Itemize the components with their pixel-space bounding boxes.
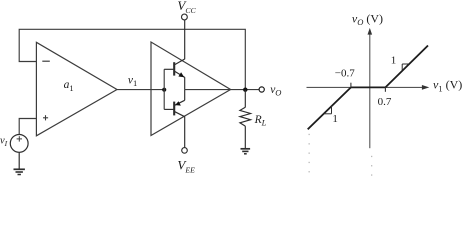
op-amp plus sign	[43, 115, 48, 120]
graph x-axis v1	[307, 86, 424, 88]
faint dotted projection line (below left diagonal)	[309, 134, 310, 173]
QN emitter arrowhead	[178, 72, 184, 77]
graph y-axis vO	[369, 34, 371, 149]
VCC terminal	[182, 14, 188, 20]
source vI	[10, 135, 28, 153]
svg-text:v1 (V): v1 (V)	[433, 78, 462, 94]
QP emitter arrowhead	[175, 101, 181, 105]
slope indicator (right), slope = 1	[402, 64, 409, 70]
transistor QN (NPN, top)	[164, 20, 185, 90]
svg-text:vO (V): vO (V)	[352, 12, 383, 28]
left diagonal segment	[308, 87, 351, 129]
faint dotted projection line (below y-axis)	[371, 156, 372, 176]
ground (under RL)	[241, 149, 251, 154]
svg-text:1: 1	[332, 113, 338, 125]
VEE terminal	[182, 148, 188, 154]
svg-text:−0.7: −0.7	[335, 68, 355, 80]
transfer curve	[308, 46, 428, 130]
output wire to vO	[185, 89, 259, 91]
buffer triangle (output stage)	[151, 42, 231, 136]
op-amp U1 (a1)	[36, 42, 117, 136]
wire v1: op-amp output to bases	[117, 89, 164, 91]
node vO (junction dot)	[243, 88, 247, 92]
non-inverting input wire	[19, 119, 36, 135]
feedback wire (output to inverting input)	[19, 29, 245, 89]
node v1 (junction dot)	[162, 88, 166, 92]
slope indicator (left), slope = 1	[323, 106, 331, 114]
tick 0.7	[384, 87, 386, 91]
base bus wire	[163, 69, 165, 109]
resistor RL	[240, 90, 251, 149]
transistor QP (PNP, bottom)	[164, 90, 185, 148]
op-amp minus sign	[42, 60, 50, 62]
svg-text:0.7: 0.7	[378, 96, 392, 108]
tick -0.7	[350, 83, 352, 88]
right diagonal segment	[385, 46, 428, 88]
dead-band flat segment	[351, 86, 386, 88]
svg-text:1: 1	[391, 54, 397, 66]
ground (under source)	[14, 152, 25, 174]
vO terminal (open circle)	[259, 87, 264, 92]
source plus sign	[17, 136, 22, 141]
